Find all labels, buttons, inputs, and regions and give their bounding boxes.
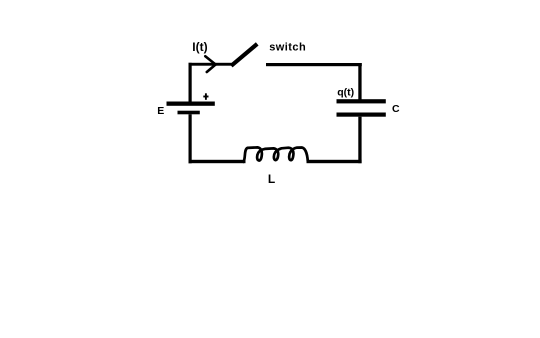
wire: left vertical lower (battery - plate down to bottom wire): [189, 114, 192, 163]
wire: left vertical upper (top wire down to battery + plate): [189, 63, 192, 102]
wire: right vertical upper (top wire down to capacitor): [358, 63, 361, 100]
capacitor C: bottom plate: [337, 113, 386, 117]
wire: top-right horizontal (switch to capacitor branch): [266, 63, 362, 66]
svg-text:C: C: [392, 103, 400, 115]
svg-text:I(t): I(t): [192, 40, 207, 54]
battery E: long positive plate: [167, 102, 215, 106]
capacitor C: top plate: [337, 99, 386, 103]
battery E: short negative plate: [178, 111, 200, 115]
wire: bottom right segment (inductor to capacitor branch): [307, 160, 362, 163]
svg-text:switch: switch: [269, 42, 306, 54]
switch S1 blade (open): [231, 44, 257, 66]
wire: right vertical lower (capacitor down to bottom wire): [358, 117, 361, 164]
inductor L coil: [244, 147, 308, 161]
wire: top-left horizontal (battery top to switch pivot): [189, 63, 232, 66]
label + (battery polarity): [203, 93, 208, 100]
svg-text:q(t): q(t): [337, 87, 354, 99]
node A: current arrowhead I(t) on top-left wire: [205, 56, 215, 72]
wire: bottom left segment (battery branch to inductor): [189, 160, 246, 163]
svg-text:L: L: [268, 172, 275, 186]
svg-text:E: E: [157, 105, 164, 117]
